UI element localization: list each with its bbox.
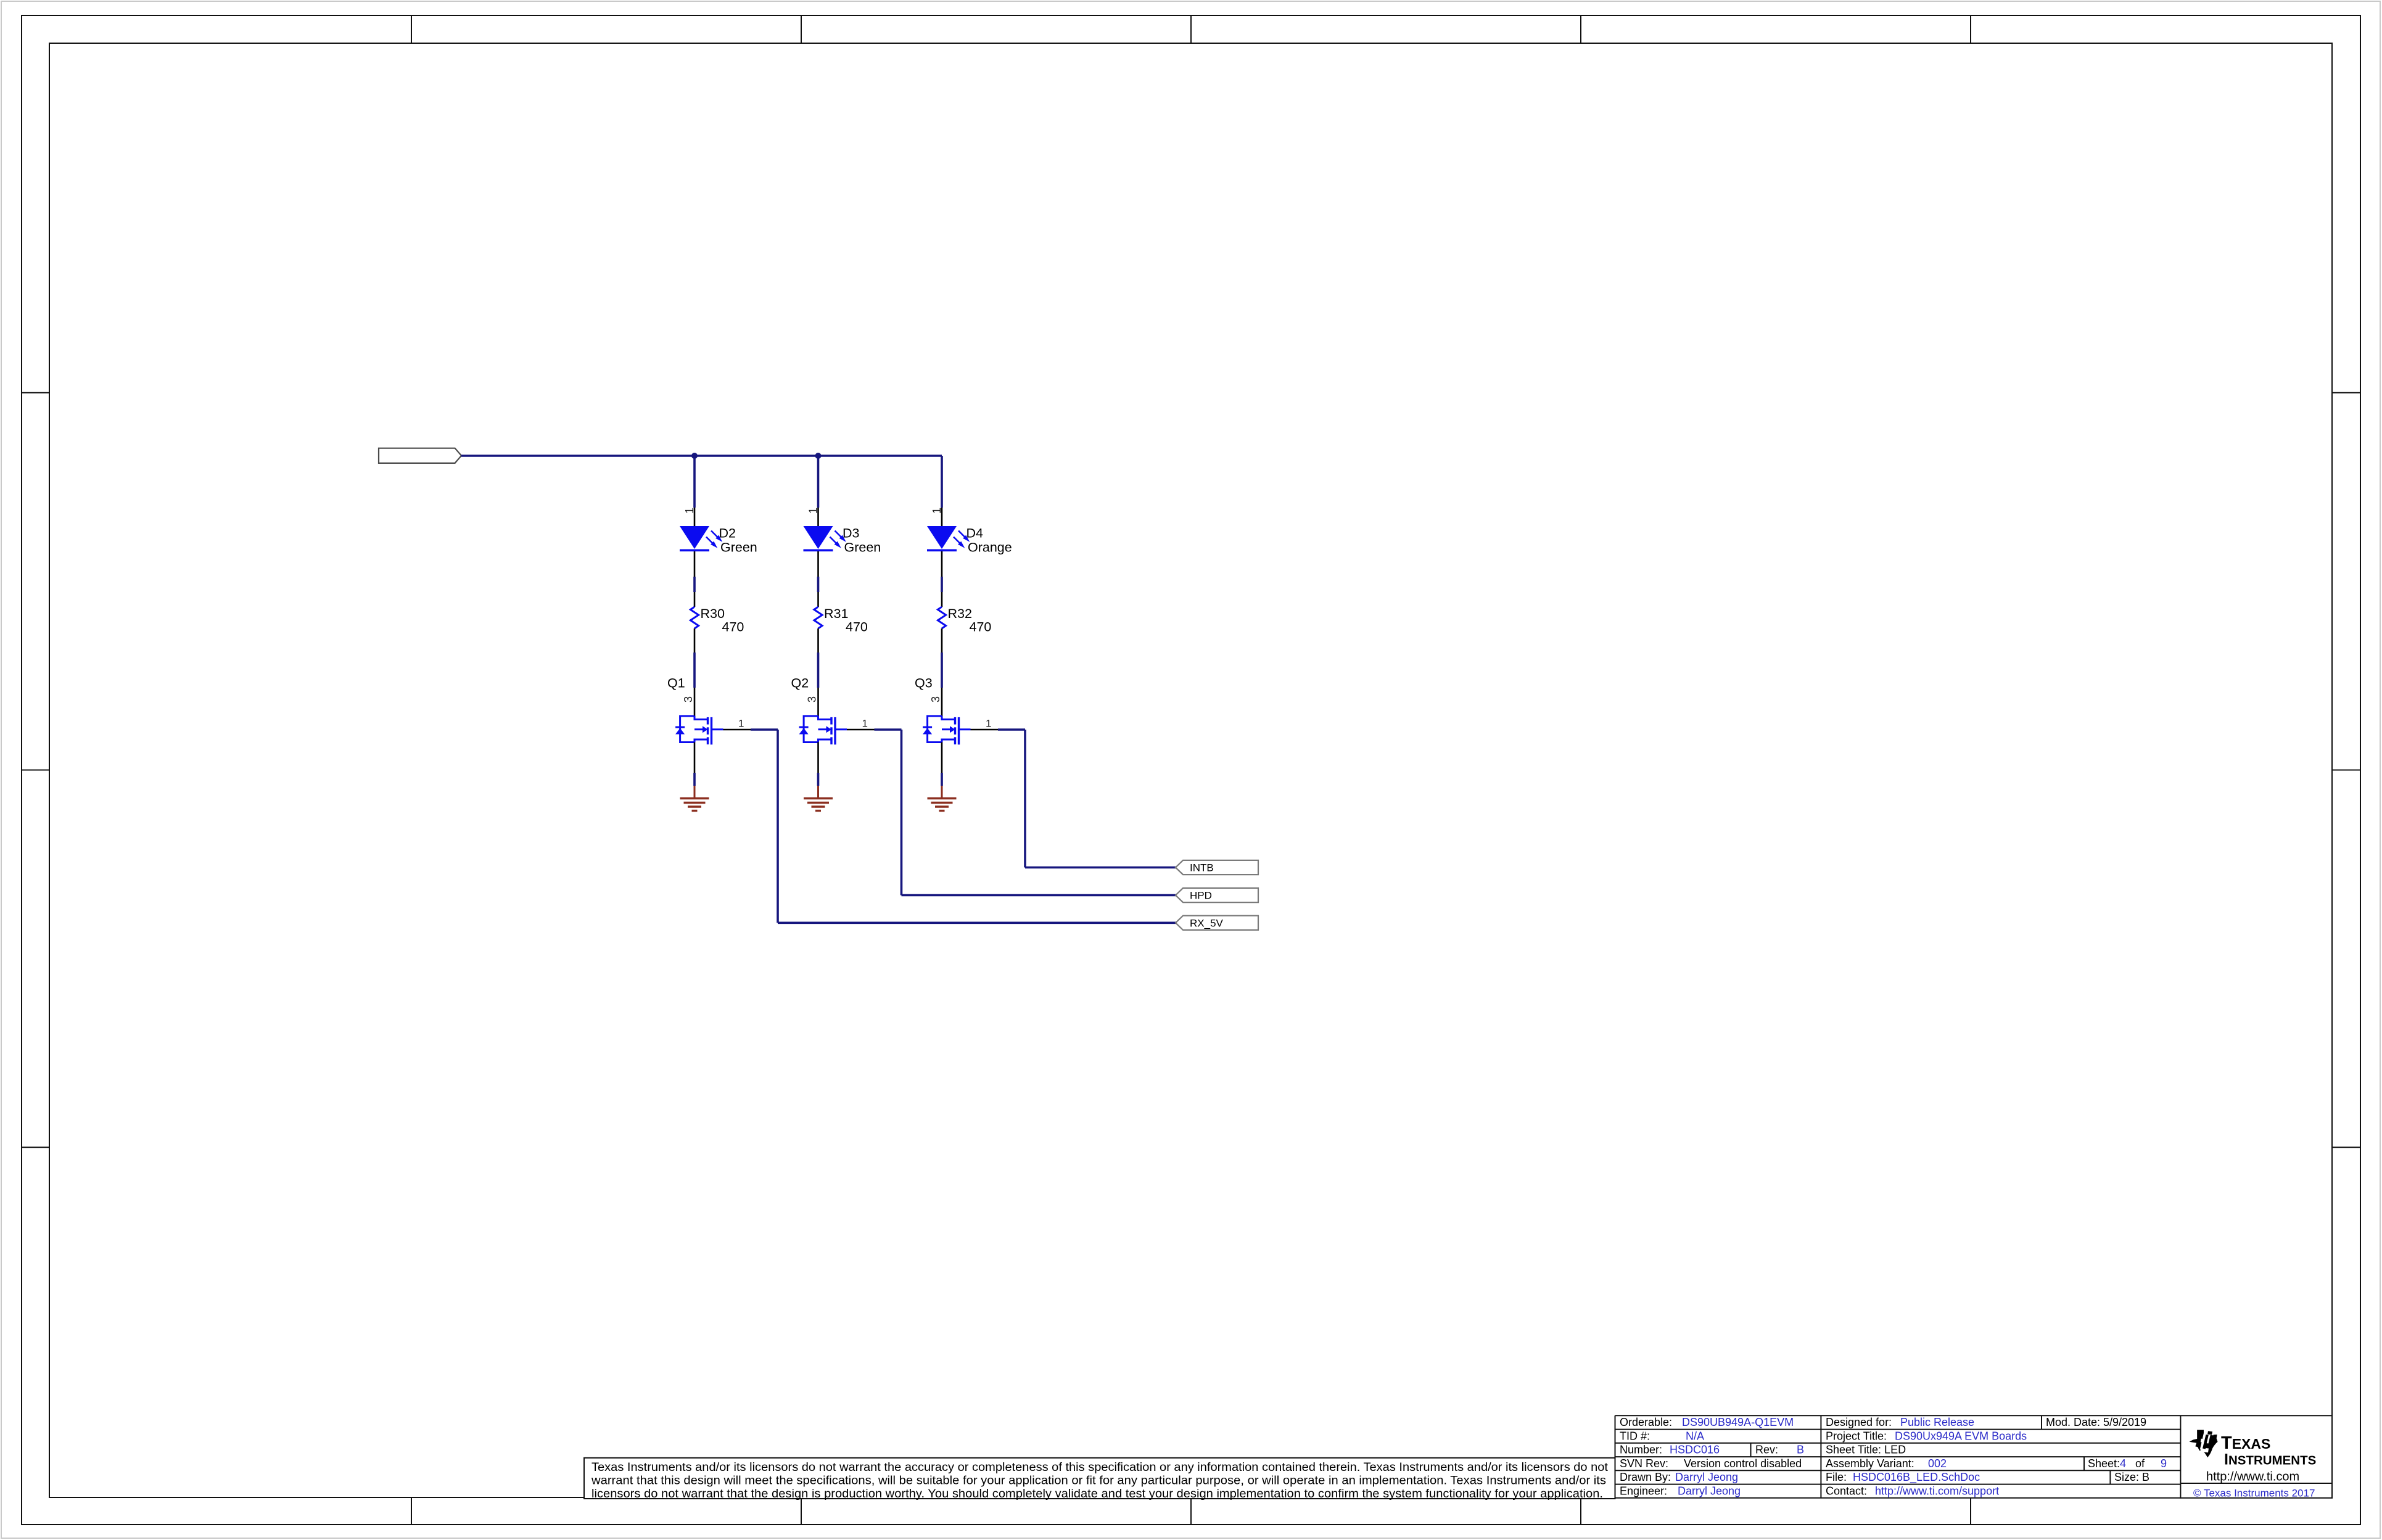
svg-text:B: B — [1797, 1444, 1804, 1456]
svg-text:Texas Instruments and/or its l: Texas Instruments and/or its licensors d… — [591, 1460, 1609, 1474]
svg-text:3: 3 — [929, 696, 942, 702]
svg-text:Darryl Jeong: Darryl Jeong — [1675, 1471, 1738, 1483]
svg-text:HPD: HPD — [1190, 890, 1212, 902]
svg-text:TEXAS: TEXAS — [2221, 1433, 2270, 1453]
svg-text:http://www.ti.com/support: http://www.ti.com/support — [1875, 1484, 1999, 1497]
svg-text:Size: B: Size: B — [2114, 1471, 2149, 1483]
svg-text:Q3: Q3 — [915, 676, 933, 691]
svg-text:N/A: N/A — [1686, 1430, 1704, 1442]
svg-text:470: 470 — [846, 620, 868, 635]
svg-text:Orderable:: Orderable: — [1620, 1416, 1672, 1428]
svg-text:DS90UB949A-Q1EVM: DS90UB949A-Q1EVM — [1682, 1416, 1794, 1428]
svg-text:Contact:: Contact: — [1826, 1484, 1867, 1497]
svg-text:HSDC016: HSDC016 — [1670, 1444, 1720, 1456]
svg-text:3: 3 — [806, 696, 818, 702]
svg-text:Drawn By:: Drawn By: — [1620, 1471, 1671, 1483]
svg-text:© Texas Instruments 2017: © Texas Instruments 2017 — [2193, 1488, 2315, 1499]
svg-text:File:: File: — [1826, 1471, 1847, 1483]
svg-text:Sheet Title: LED: Sheet Title: LED — [1826, 1444, 1906, 1456]
svg-text:HSDC016B_LED.SchDoc: HSDC016B_LED.SchDoc — [1853, 1471, 1980, 1484]
svg-text:R31: R31 — [824, 606, 848, 621]
svg-text:Designed for:: Designed for: — [1826, 1416, 1892, 1428]
svg-text:Sheet:: Sheet: — [2088, 1457, 2120, 1470]
svg-text:1: 1 — [807, 508, 820, 514]
svg-text:Rev:: Rev: — [1755, 1444, 1778, 1456]
svg-text:Green: Green — [844, 540, 881, 555]
svg-text:4: 4 — [2120, 1457, 2126, 1470]
svg-text:Project Title:: Project Title: — [1826, 1430, 1887, 1442]
svg-text:R32: R32 — [948, 606, 972, 621]
svg-text:5/9/2019: 5/9/2019 — [2103, 1416, 2146, 1428]
svg-text:TID #:: TID #: — [1620, 1430, 1650, 1442]
svg-text:of: of — [2135, 1457, 2145, 1470]
svg-text:SVN Rev:: SVN Rev: — [1620, 1457, 1668, 1470]
svg-text:1: 1 — [862, 718, 868, 730]
svg-text:INSTRUMENTS: INSTRUMENTS — [2224, 1451, 2316, 1468]
svg-text:Public Release: Public Release — [1900, 1416, 1974, 1428]
svg-text:1: 1 — [986, 718, 991, 730]
svg-text:Assembly Variant:: Assembly Variant: — [1826, 1457, 1914, 1470]
svg-text:3: 3 — [682, 696, 694, 702]
svg-text:http://www.ti.com: http://www.ti.com — [2206, 1470, 2299, 1484]
svg-text:9: 9 — [2161, 1457, 2167, 1470]
svg-text:Orange: Orange — [968, 540, 1012, 555]
svg-text:INTB: INTB — [1190, 862, 1214, 874]
svg-text:Engineer:: Engineer: — [1620, 1484, 1667, 1497]
svg-text:1: 1 — [738, 718, 744, 730]
svg-text:Darryl Jeong: Darryl Jeong — [1678, 1484, 1741, 1497]
svg-text:470: 470 — [722, 620, 744, 635]
svg-text:Version control disabled: Version control disabled — [1684, 1457, 1802, 1470]
svg-text:470: 470 — [970, 620, 992, 635]
svg-text:D3: D3 — [843, 526, 860, 541]
svg-text:Mod. Date:: Mod. Date: — [2046, 1416, 2100, 1428]
svg-text:DS90Ux949A EVM Boards: DS90Ux949A EVM Boards — [1895, 1430, 2027, 1442]
svg-text:002: 002 — [1928, 1457, 1947, 1470]
svg-text:RX_5V: RX_5V — [1190, 917, 1224, 929]
svg-text:warrant that this design will: warrant that this design will meet the s… — [591, 1474, 1606, 1488]
svg-text:licensors do not warrant that: licensors do not warrant that the design… — [591, 1487, 1603, 1501]
svg-text:Green: Green — [720, 540, 757, 555]
svg-text:Q2: Q2 — [791, 676, 809, 691]
svg-text:1: 1 — [931, 508, 943, 514]
svg-text:D2: D2 — [719, 526, 736, 541]
svg-text:D4: D4 — [966, 526, 984, 541]
svg-text:Number:: Number: — [1620, 1444, 1662, 1456]
svg-text:1: 1 — [683, 508, 696, 514]
svg-text:R30: R30 — [701, 606, 725, 621]
svg-text:Q1: Q1 — [667, 676, 685, 691]
